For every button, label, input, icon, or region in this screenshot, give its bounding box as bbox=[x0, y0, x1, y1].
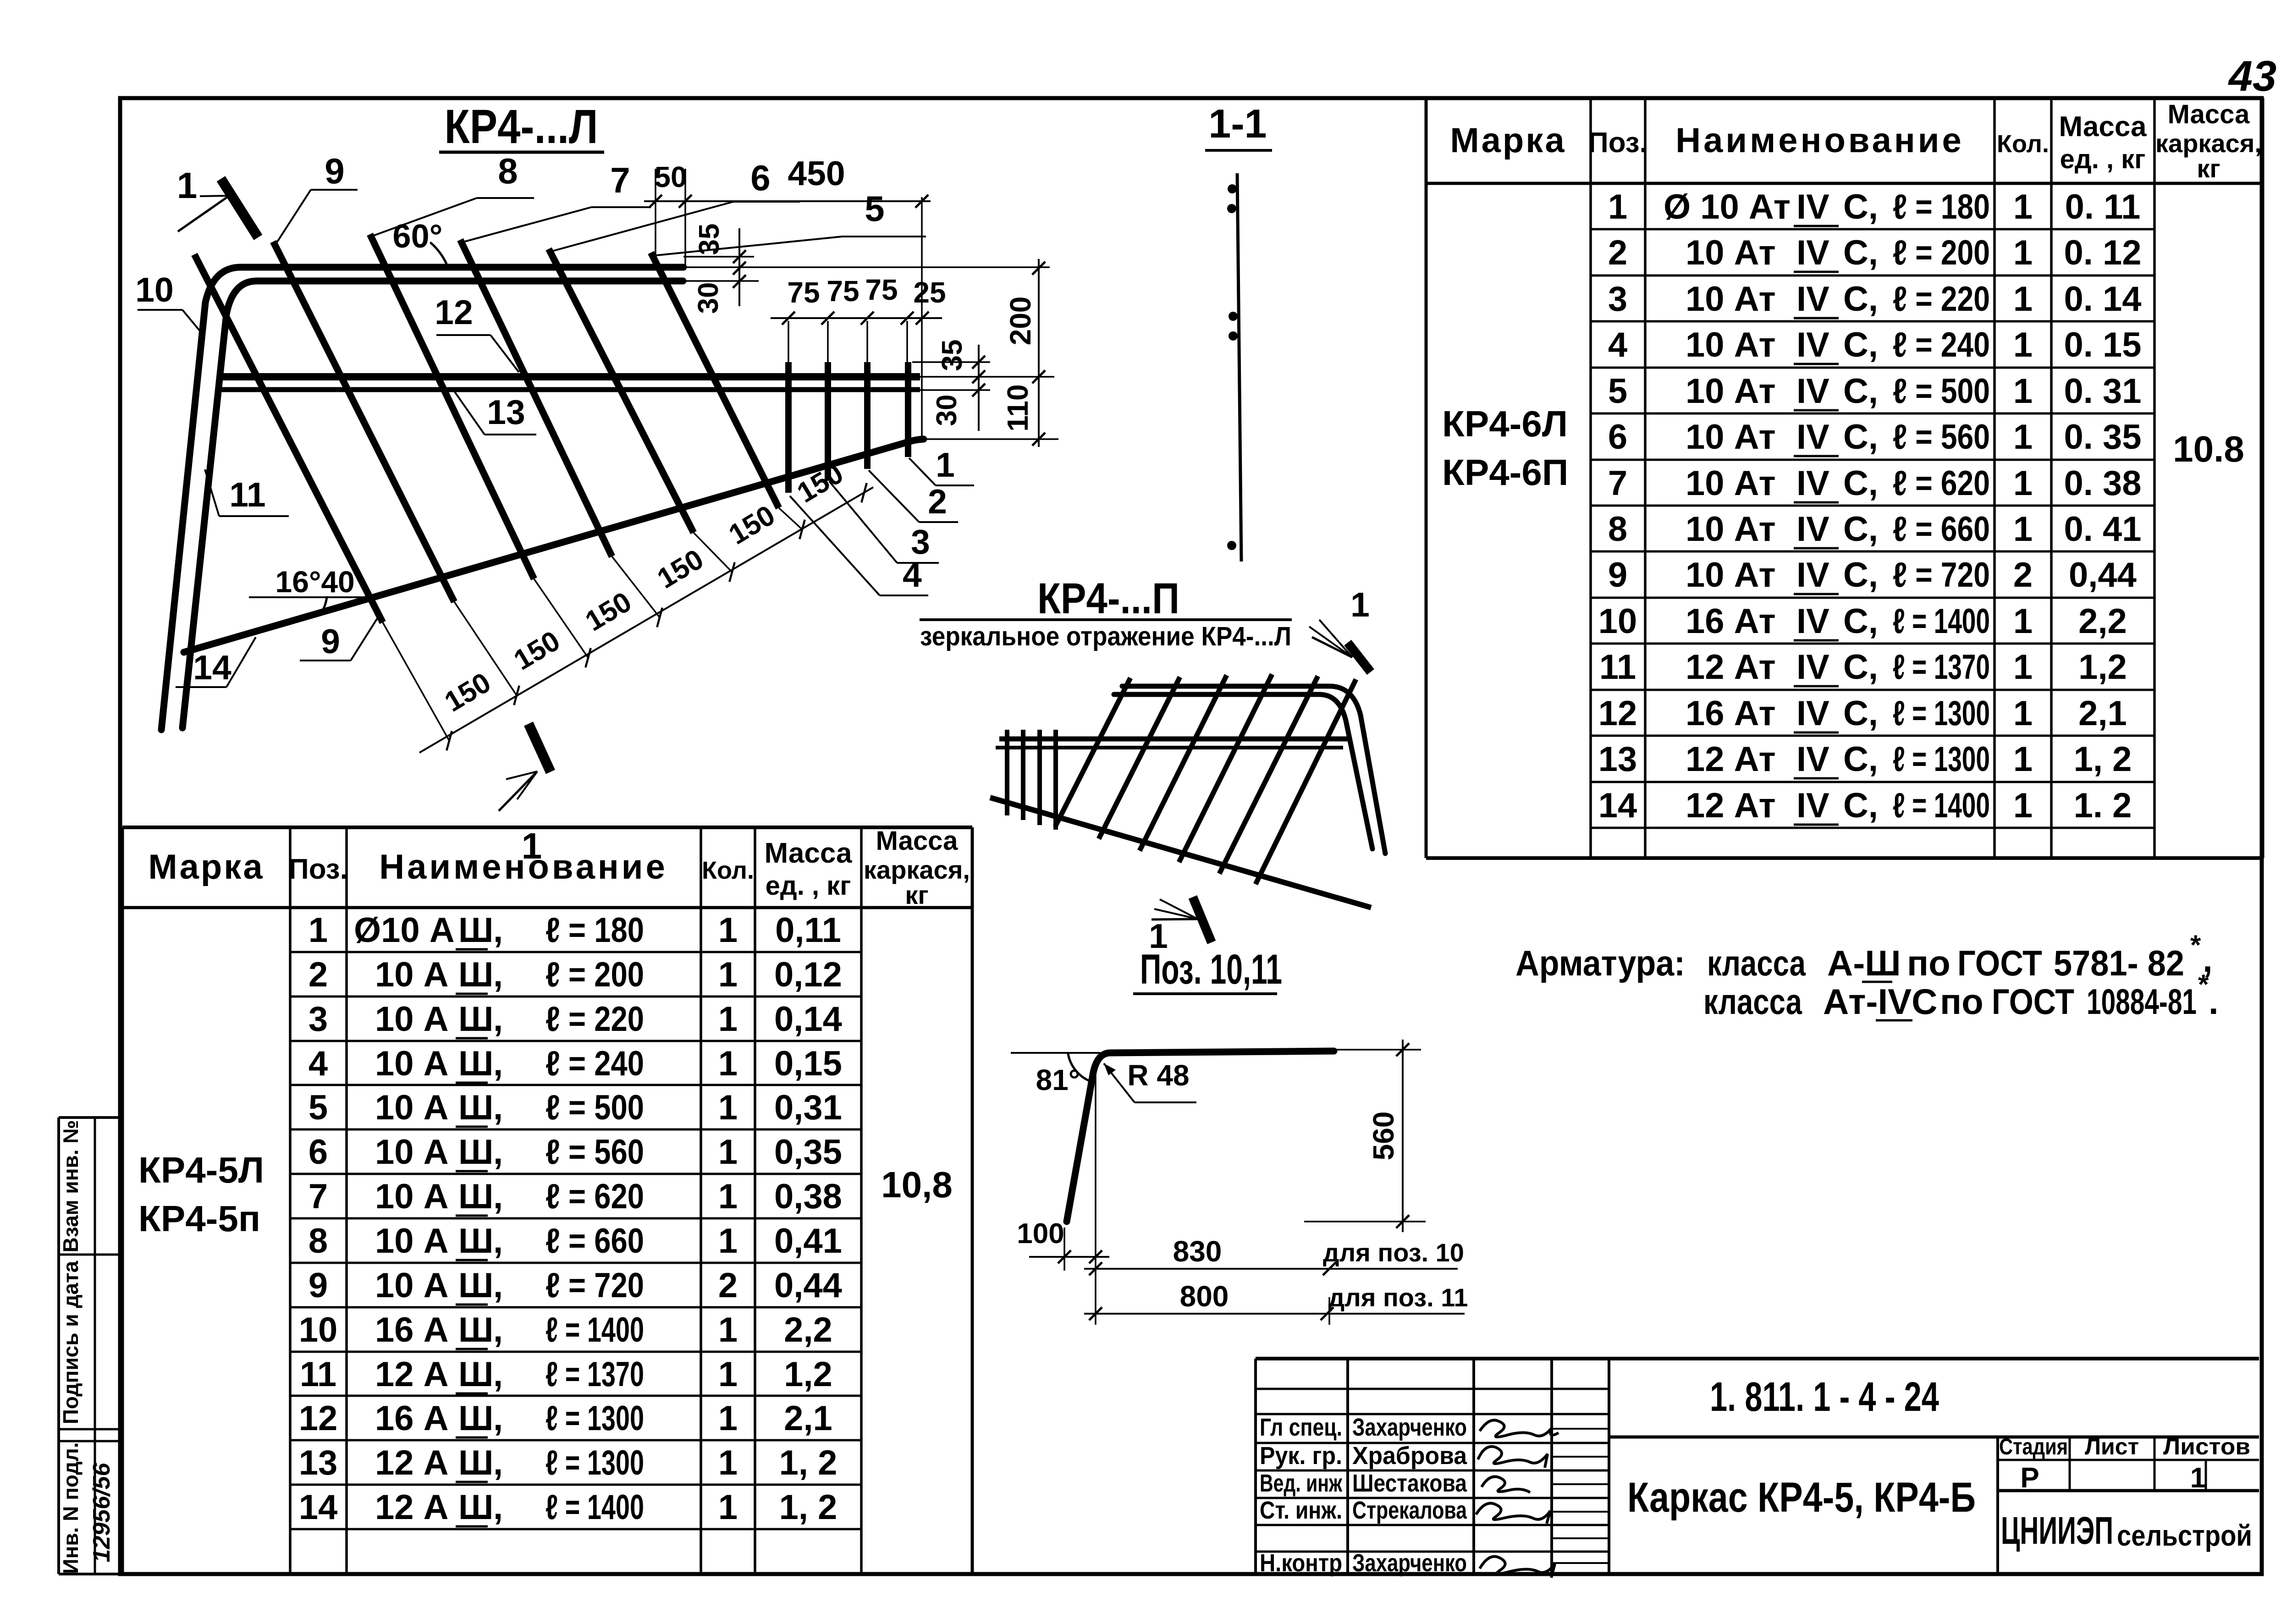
svg-text:10 А: 10 А bbox=[375, 1088, 449, 1127]
dimension 800 for poz 11 bbox=[1084, 1280, 1468, 1320]
callout 6 bbox=[552, 158, 800, 251]
svg-text:С,: С, bbox=[1843, 280, 1878, 319]
svg-text:1: 1 bbox=[2013, 648, 2033, 687]
svg-text:0. 12: 0. 12 bbox=[2064, 233, 2141, 272]
section 1-1 bar bbox=[1237, 173, 1241, 562]
svg-text:10 Ат: 10 Ат bbox=[1686, 464, 1776, 503]
svg-text:75: 75 bbox=[865, 273, 898, 306]
section 1-1 dot 3 bbox=[1229, 312, 1238, 321]
svg-text:1: 1 bbox=[2013, 464, 2033, 503]
svg-text:1,2: 1,2 bbox=[784, 1355, 832, 1394]
svg-text:по: по bbox=[1907, 943, 1950, 983]
svg-text:16 А: 16 А bbox=[375, 1310, 449, 1349]
svg-text:12956/56: 12956/56 bbox=[88, 1462, 115, 1562]
svg-text:0. 14: 0. 14 bbox=[2064, 280, 2141, 319]
svg-text:Ш: Ш bbox=[458, 911, 493, 950]
svg-text:для поз. 10: для поз. 10 bbox=[1323, 1238, 1464, 1267]
P inclined bar 2 bbox=[1219, 676, 1318, 874]
svg-text:12 Ат: 12 Ат bbox=[1686, 740, 1776, 779]
title block bbox=[1256, 1359, 2259, 1574]
svg-text:,: , bbox=[493, 1488, 503, 1527]
svg-text:0. 41: 0. 41 bbox=[2064, 510, 2141, 549]
svg-text:560: 560 bbox=[1367, 1112, 1400, 1161]
svg-text:Ш: Ш bbox=[458, 1488, 493, 1527]
callout 12 bbox=[435, 293, 519, 372]
svg-text:10 Ат: 10 Ат bbox=[1686, 372, 1776, 411]
table row 14 bbox=[299, 1488, 837, 1527]
svg-text:0. 38: 0. 38 bbox=[2064, 464, 2141, 503]
svg-text:10 Ат: 10 Ат bbox=[1686, 325, 1776, 364]
svg-text:Поз.: Поз. bbox=[1588, 127, 1647, 159]
svg-text:IV: IV bbox=[1796, 740, 1829, 779]
svg-text:,: , bbox=[493, 1443, 503, 1482]
angle label 16 deg 40 min bbox=[249, 565, 371, 614]
svg-text:200: 200 bbox=[1004, 297, 1037, 346]
svg-text:800: 800 bbox=[1180, 1280, 1229, 1313]
P section mark top bbox=[1309, 620, 1371, 672]
svg-text:ℓ = 240: ℓ = 240 bbox=[1893, 325, 1990, 364]
table row 5 bbox=[309, 1088, 842, 1127]
table row 4 bbox=[309, 1044, 842, 1083]
svg-text:8: 8 bbox=[309, 1222, 328, 1261]
svg-text:ℓ = 240: ℓ = 240 bbox=[545, 1044, 644, 1083]
svg-text:Ø10 А: Ø10 А bbox=[354, 911, 455, 950]
svg-text:ед. , кг: ед. , кг bbox=[2060, 144, 2146, 174]
svg-text:10 А: 10 А bbox=[375, 1177, 449, 1216]
svg-text:класса: класса bbox=[1703, 981, 1802, 1022]
svg-text:830: 830 bbox=[1173, 1235, 1222, 1268]
svg-text:7: 7 bbox=[610, 160, 630, 200]
table row 9 bbox=[1608, 556, 2137, 595]
svg-text:Вед. инж: Вед. инж bbox=[1260, 1470, 1343, 1497]
svg-text:,: , bbox=[493, 911, 503, 950]
svg-text:IV: IV bbox=[1796, 464, 1829, 503]
svg-text:С,: С, bbox=[1843, 602, 1878, 641]
svg-text:10 А: 10 А bbox=[375, 1133, 449, 1172]
svg-text:Ш: Ш bbox=[458, 1088, 493, 1127]
dimension 200 bbox=[1004, 259, 1045, 447]
vertical bar poz 4 bbox=[785, 362, 792, 493]
section mark 1 (bottom) bbox=[499, 724, 551, 811]
table row 3 bbox=[309, 1000, 842, 1039]
svg-text:ℓ = 660: ℓ = 660 bbox=[545, 1222, 644, 1261]
svg-text:ℓ = 220: ℓ = 220 bbox=[1893, 280, 1990, 319]
svg-text:1: 1 bbox=[718, 1355, 738, 1394]
svg-text:2,1: 2,1 bbox=[784, 1399, 832, 1438]
svg-text:1: 1 bbox=[2013, 233, 2033, 272]
P middle bar upper bbox=[999, 737, 1350, 742]
P vertical bar 1 bbox=[1005, 730, 1009, 815]
svg-text:11: 11 bbox=[300, 1355, 336, 1394]
svg-text:75: 75 bbox=[826, 275, 859, 308]
svg-text:Ш: Ш bbox=[458, 955, 493, 994]
svg-text:3: 3 bbox=[1608, 280, 1627, 319]
svg-text:10 Ат: 10 Ат bbox=[1686, 233, 1776, 272]
svg-text:10 А: 10 А bbox=[375, 955, 449, 994]
svg-text:0,35: 0,35 bbox=[774, 1133, 842, 1172]
svg-text:1: 1 bbox=[718, 1177, 738, 1216]
svg-text:ℓ = 500: ℓ = 500 bbox=[1893, 372, 1990, 411]
svg-text:11: 11 bbox=[1599, 648, 1636, 687]
svg-text:1: 1 bbox=[2013, 602, 2033, 641]
svg-text:10: 10 bbox=[1598, 602, 1637, 641]
svg-text:ℓ = 1300: ℓ = 1300 bbox=[545, 1443, 644, 1482]
svg-text:Гл спец.: Гл спец. bbox=[1260, 1414, 1342, 1441]
svg-text:*: * bbox=[2190, 930, 2201, 960]
svg-text:0,15: 0,15 bbox=[774, 1044, 842, 1083]
svg-text:А-Ш: А-Ш bbox=[1827, 943, 1901, 983]
P bottom chord bbox=[990, 798, 1371, 908]
svg-text:IV: IV bbox=[1796, 510, 1829, 549]
svg-text:0,44: 0,44 bbox=[774, 1266, 842, 1305]
callout 5 bbox=[656, 188, 926, 255]
svg-text:Захарченко: Захарченко bbox=[1352, 1414, 1467, 1441]
callout 10 bbox=[135, 270, 200, 331]
section 1-1 dot 4 bbox=[1229, 331, 1238, 341]
table row 7 bbox=[309, 1177, 842, 1216]
section view 1-1 title bbox=[1205, 101, 1272, 150]
svg-text:12: 12 bbox=[299, 1399, 338, 1438]
inclined bar diag1 bbox=[194, 254, 383, 622]
svg-text:Ш: Ш bbox=[458, 1310, 493, 1349]
svg-text:10 А: 10 А bbox=[375, 1222, 449, 1261]
P middle bar lower bbox=[996, 746, 1343, 749]
svg-text:кг: кг bbox=[905, 881, 928, 909]
dimension 110 bbox=[927, 384, 1058, 439]
svg-text:14: 14 bbox=[193, 648, 231, 687]
extension lines 830/800 bbox=[1095, 1063, 1096, 1325]
svg-text:,: , bbox=[493, 1266, 503, 1305]
svg-text:43: 43 bbox=[2228, 52, 2277, 100]
svg-text:12 Ат: 12 Ат bbox=[1686, 786, 1776, 825]
svg-text:ℓ = 1370: ℓ = 1370 bbox=[545, 1355, 644, 1394]
title block roles bbox=[1260, 1414, 1343, 1577]
svg-text:,: , bbox=[493, 1355, 503, 1394]
svg-text:ℓ = 1300: ℓ = 1300 bbox=[1893, 694, 1990, 733]
svg-text:1: 1 bbox=[177, 165, 198, 206]
svg-text:,: , bbox=[493, 1177, 503, 1216]
svg-text:Стадия: Стадия bbox=[1999, 1434, 2068, 1459]
svg-text:6: 6 bbox=[750, 158, 770, 198]
svg-text:10884-81: 10884-81 bbox=[2087, 981, 2197, 1022]
label R 48 bbox=[1104, 1059, 1196, 1102]
title KR4-...P bbox=[920, 574, 1292, 651]
section mark 1 (top left) bbox=[178, 179, 258, 237]
svg-text:Листов: Листов bbox=[2163, 1434, 2250, 1459]
svg-text:13: 13 bbox=[1598, 740, 1637, 779]
svg-text:1: 1 bbox=[718, 1222, 738, 1261]
svg-text:2: 2 bbox=[309, 955, 328, 994]
left margin strip boxes bbox=[59, 1118, 121, 1574]
svg-text:Масса: Масса bbox=[876, 826, 959, 856]
table row 6 bbox=[309, 1133, 842, 1172]
table row 9 bbox=[309, 1266, 842, 1305]
svg-text:ℓ = 1300: ℓ = 1300 bbox=[545, 1399, 644, 1438]
callout 9 top bbox=[275, 151, 358, 245]
svg-text:КР4-5Л: КР4-5Л bbox=[138, 1150, 264, 1190]
svg-text:Ш: Ш bbox=[458, 1266, 493, 1305]
svg-text:ℓ = 200: ℓ = 200 bbox=[1893, 233, 1990, 272]
signatures bbox=[1476, 1420, 1559, 1578]
vertical bar poz 1 bbox=[905, 362, 911, 457]
inclined bar diag2 bbox=[273, 242, 454, 602]
table row 10 bbox=[1598, 602, 2127, 641]
svg-text:9: 9 bbox=[309, 1266, 328, 1305]
svg-text:10 А: 10 А bbox=[375, 1266, 449, 1305]
svg-text:81°: 81° bbox=[1036, 1063, 1080, 1096]
svg-text:9: 9 bbox=[325, 151, 344, 191]
svg-text:IV: IV bbox=[1796, 786, 1829, 825]
svg-text:класса: класса bbox=[1707, 943, 1806, 983]
svg-text:ℓ = 660: ℓ = 660 bbox=[1893, 510, 1990, 549]
P vertical bar 4 bbox=[1053, 730, 1058, 830]
inclined bar diag3 bbox=[370, 234, 534, 579]
svg-text:0. 35: 0. 35 bbox=[2064, 418, 2141, 457]
table row 14 bbox=[1598, 786, 2132, 825]
svg-text:0,41: 0,41 bbox=[774, 1222, 842, 1261]
table row 12 bbox=[1598, 694, 2127, 733]
svg-text:0. 11: 0. 11 bbox=[2065, 187, 2141, 226]
svg-text:Масса: Масса bbox=[764, 837, 852, 869]
svg-text:Ш: Ш bbox=[458, 1000, 493, 1039]
svg-text:10 Ат: 10 Ат bbox=[1686, 556, 1776, 595]
separator under code bbox=[1609, 1436, 2259, 1439]
svg-text:С,: С, bbox=[1843, 740, 1878, 779]
svg-text:ед. , кг: ед. , кг bbox=[766, 871, 851, 901]
svg-text:IV: IV bbox=[1796, 233, 1829, 272]
P inclined bar 6 bbox=[1055, 678, 1130, 826]
P inclined bar 3 bbox=[1179, 674, 1272, 862]
svg-text:1: 1 bbox=[718, 911, 738, 950]
svg-text:IV: IV bbox=[1796, 556, 1829, 595]
svg-text:16 Ат: 16 Ат bbox=[1686, 602, 1776, 641]
svg-text:1: 1 bbox=[2013, 372, 2033, 411]
top longitudinal bar upper (poz 9) with left leg poz 10 bbox=[161, 267, 683, 730]
svg-text:IV: IV bbox=[1796, 694, 1829, 733]
svg-text:10 А: 10 А bbox=[375, 1000, 449, 1039]
svg-text:4: 4 bbox=[903, 556, 922, 594]
svg-text:1: 1 bbox=[309, 911, 328, 950]
svg-text:Подпись и дата: Подпись и дата bbox=[59, 1261, 83, 1424]
top longitudinal bar lower with left leg poz 11 bbox=[182, 281, 683, 728]
svg-text:Храброва: Храброва bbox=[1352, 1442, 1467, 1470]
svg-text:IV: IV bbox=[1796, 325, 1829, 364]
svg-text:5: 5 bbox=[1608, 372, 1627, 411]
svg-text:60°: 60° bbox=[393, 218, 443, 255]
svg-text:1: 1 bbox=[1350, 585, 1370, 624]
P inclined bar 5 bbox=[1099, 677, 1180, 839]
table row 8 bbox=[309, 1222, 842, 1261]
svg-text:10 Ат: 10 Ат bbox=[1686, 280, 1776, 319]
svg-text:4: 4 bbox=[309, 1044, 328, 1083]
table marka bbox=[138, 1150, 264, 1239]
svg-text:1: 1 bbox=[2190, 1462, 2206, 1494]
svg-text:ЦНИИЭП: ЦНИИЭП bbox=[2001, 1509, 2113, 1552]
svg-text:ℓ = 180: ℓ = 180 bbox=[1893, 187, 1990, 226]
bent bar poz 10,11 bbox=[1067, 1051, 1334, 1222]
svg-text:14: 14 bbox=[1598, 786, 1637, 825]
table row 10 bbox=[299, 1310, 832, 1349]
table row 11 bbox=[1599, 648, 2127, 687]
svg-text:10: 10 bbox=[299, 1310, 338, 1349]
middle longitudinal bar poz 13 bbox=[215, 387, 920, 392]
angle reference line bbox=[1011, 1052, 1100, 1054]
svg-text:С,: С, bbox=[1843, 233, 1878, 272]
svg-text:1: 1 bbox=[718, 1310, 738, 1349]
section 1-1 dot 1 bbox=[1228, 184, 1237, 193]
callout 1 bbox=[909, 446, 974, 485]
svg-text:ℓ = 1400: ℓ = 1400 bbox=[1893, 602, 1990, 641]
svg-text:зеркальное отражение КР4-...Л: зеркальное отражение КР4-...Л bbox=[920, 622, 1291, 651]
table row 3 bbox=[1608, 280, 2142, 319]
svg-text:,: , bbox=[493, 955, 503, 994]
svg-text:С,: С, bbox=[1843, 694, 1878, 733]
svg-text:12: 12 bbox=[435, 293, 473, 331]
svg-text:Поз.: Поз. bbox=[288, 853, 348, 885]
svg-text:100: 100 bbox=[1017, 1218, 1064, 1250]
svg-text:8: 8 bbox=[1608, 510, 1627, 549]
svg-text:ℓ = 560: ℓ = 560 bbox=[545, 1133, 644, 1172]
inclined bar diag4 bbox=[460, 240, 612, 556]
svg-text:С,: С, bbox=[1843, 372, 1878, 411]
svg-text:Поз. 10,11: Поз. 10,11 bbox=[1140, 946, 1282, 993]
svg-text:ℓ = 560: ℓ = 560 bbox=[1893, 418, 1990, 457]
svg-text:16 А: 16 А bbox=[375, 1399, 449, 1438]
svg-text:,: , bbox=[493, 1310, 503, 1349]
armature note line 2 bbox=[1703, 969, 2219, 1022]
svg-text:Н.контр: Н.контр bbox=[1260, 1549, 1342, 1577]
svg-text:1: 1 bbox=[2013, 418, 2033, 457]
P top bar upper with right leg bbox=[1122, 686, 1385, 853]
svg-text:каркася,: каркася, bbox=[864, 855, 970, 884]
table row 8 bbox=[1608, 510, 2142, 549]
svg-text:1: 1 bbox=[936, 446, 955, 484]
svg-text:ℓ = 720: ℓ = 720 bbox=[1893, 556, 1990, 595]
svg-text:16°40': 16°40' bbox=[275, 565, 362, 599]
table row 4 bbox=[1608, 325, 2142, 364]
dimension 100 bbox=[1017, 1218, 1109, 1271]
svg-text:ℓ = 1400: ℓ = 1400 bbox=[545, 1310, 644, 1349]
dimension 35 (right) bbox=[912, 340, 1054, 431]
table row 2 bbox=[1608, 233, 2142, 272]
svg-text:С,: С, bbox=[1843, 786, 1878, 825]
svg-text:ℓ = 620: ℓ = 620 bbox=[1893, 464, 1990, 503]
svg-text:С,: С, bbox=[1843, 187, 1878, 226]
svg-text:IV: IV bbox=[1796, 372, 1829, 411]
svg-text:,: , bbox=[493, 1399, 503, 1438]
callout 3 bbox=[829, 481, 939, 563]
svg-text:Наименование: Наименование bbox=[379, 848, 668, 886]
table row 2 bbox=[309, 955, 842, 994]
vertical bar poz 2 bbox=[864, 362, 871, 469]
middle longitudinal bar poz 12 bbox=[219, 373, 920, 380]
svg-text:13: 13 bbox=[299, 1443, 338, 1482]
svg-text:Масса: Масса bbox=[2059, 111, 2147, 143]
svg-text:,: , bbox=[493, 1000, 503, 1039]
svg-text:Ат-IVС: Ат-IVС bbox=[1823, 981, 1938, 1022]
svg-text:Каркас КР4-5, КР4-Б: Каркас КР4-5, КР4-Б bbox=[1627, 1474, 1976, 1521]
P vertical bar 3 bbox=[1037, 730, 1042, 825]
svg-text:Марка: Марка bbox=[148, 848, 264, 886]
svg-text:10 Ат: 10 Ат bbox=[1686, 418, 1776, 457]
svg-text:0,12: 0,12 bbox=[774, 955, 842, 994]
svg-text:1: 1 bbox=[718, 1399, 738, 1438]
armature note line 1 bbox=[1515, 930, 2213, 983]
svg-text:1: 1 bbox=[2013, 280, 2033, 319]
svg-text:С,: С, bbox=[1843, 510, 1878, 549]
svg-text:12: 12 bbox=[1598, 694, 1637, 733]
svg-text:IV: IV bbox=[1796, 280, 1829, 319]
svg-text:КР4-6Л: КР4-6Л bbox=[1442, 403, 1568, 444]
svg-text:Кол.: Кол. bbox=[702, 857, 754, 884]
table row 11 bbox=[300, 1355, 832, 1394]
svg-text:Наименование: Наименование bbox=[1675, 121, 1964, 160]
svg-text:,: , bbox=[493, 1222, 503, 1261]
svg-text:С,: С, bbox=[1843, 418, 1878, 457]
svg-text:ℓ = 1400: ℓ = 1400 bbox=[545, 1488, 644, 1527]
svg-text:IV: IV bbox=[1796, 187, 1829, 226]
svg-text:450: 450 bbox=[788, 154, 845, 193]
svg-text:.: . bbox=[2209, 981, 2219, 1022]
svg-text:ℓ = 500: ℓ = 500 bbox=[545, 1088, 644, 1127]
dimension 50 and 450 bbox=[644, 154, 931, 270]
svg-text:10,8: 10,8 bbox=[881, 1164, 953, 1205]
svg-text:0,11: 0,11 bbox=[775, 911, 841, 950]
svg-text:КР4-6П: КР4-6П bbox=[1442, 452, 1568, 493]
svg-text:2: 2 bbox=[1608, 233, 1627, 272]
callout 11 bbox=[205, 469, 289, 516]
svg-text:Рук. гр.: Рук. гр. bbox=[1260, 1442, 1342, 1470]
svg-text:30: 30 bbox=[931, 395, 963, 426]
svg-text:1: 1 bbox=[718, 1133, 738, 1172]
callout 2 bbox=[869, 470, 958, 522]
svg-text:ℓ = 200: ℓ = 200 bbox=[545, 955, 644, 994]
svg-text:1: 1 bbox=[718, 1488, 738, 1527]
svg-text:ГОСТ: ГОСТ bbox=[1992, 981, 2074, 1022]
svg-text:Лист: Лист bbox=[2085, 1434, 2139, 1459]
svg-text:0,38: 0,38 bbox=[774, 1177, 842, 1216]
callout 14 bbox=[176, 637, 256, 687]
svg-text:1: 1 bbox=[718, 1443, 738, 1482]
svg-text:Стрекалова: Стрекалова bbox=[1352, 1497, 1467, 1524]
svg-text:Ш: Ш bbox=[458, 1222, 493, 1261]
svg-text:2: 2 bbox=[2013, 556, 2033, 595]
svg-text:Инв. N подл.: Инв. N подл. bbox=[59, 1442, 83, 1574]
table outer bbox=[1426, 98, 2263, 858]
long extension line right bbox=[921, 197, 923, 439]
table row 5 bbox=[1608, 372, 2142, 411]
table row 13 bbox=[299, 1443, 837, 1482]
section 1-1 dot 2 bbox=[1227, 204, 1236, 213]
table outer bbox=[122, 827, 972, 1574]
svg-text:2: 2 bbox=[928, 482, 947, 521]
svg-text:2,2: 2,2 bbox=[2078, 602, 2127, 641]
svg-text:Ø 10 Ат: Ø 10 Ат bbox=[1664, 187, 1791, 226]
svg-text:R 48: R 48 bbox=[1127, 1059, 1189, 1092]
dimension 560 bbox=[1304, 1040, 1426, 1232]
svg-text:1: 1 bbox=[718, 1044, 738, 1083]
svg-text:110: 110 bbox=[1001, 384, 1034, 431]
svg-text:Арматура:: Арматура: bbox=[1515, 943, 1685, 983]
callout 4 bbox=[790, 496, 928, 595]
svg-text:1, 2: 1, 2 bbox=[2074, 740, 2132, 779]
dimension line 150 x6 bbox=[383, 457, 873, 753]
svg-text:Р: Р bbox=[2020, 1462, 2039, 1494]
svg-text:Захарченко: Захарченко bbox=[1352, 1549, 1467, 1577]
svg-text:С,: С, bbox=[1843, 556, 1878, 595]
svg-text:1, 2: 1, 2 bbox=[779, 1443, 837, 1482]
svg-text:1,2: 1,2 bbox=[2078, 648, 2127, 687]
